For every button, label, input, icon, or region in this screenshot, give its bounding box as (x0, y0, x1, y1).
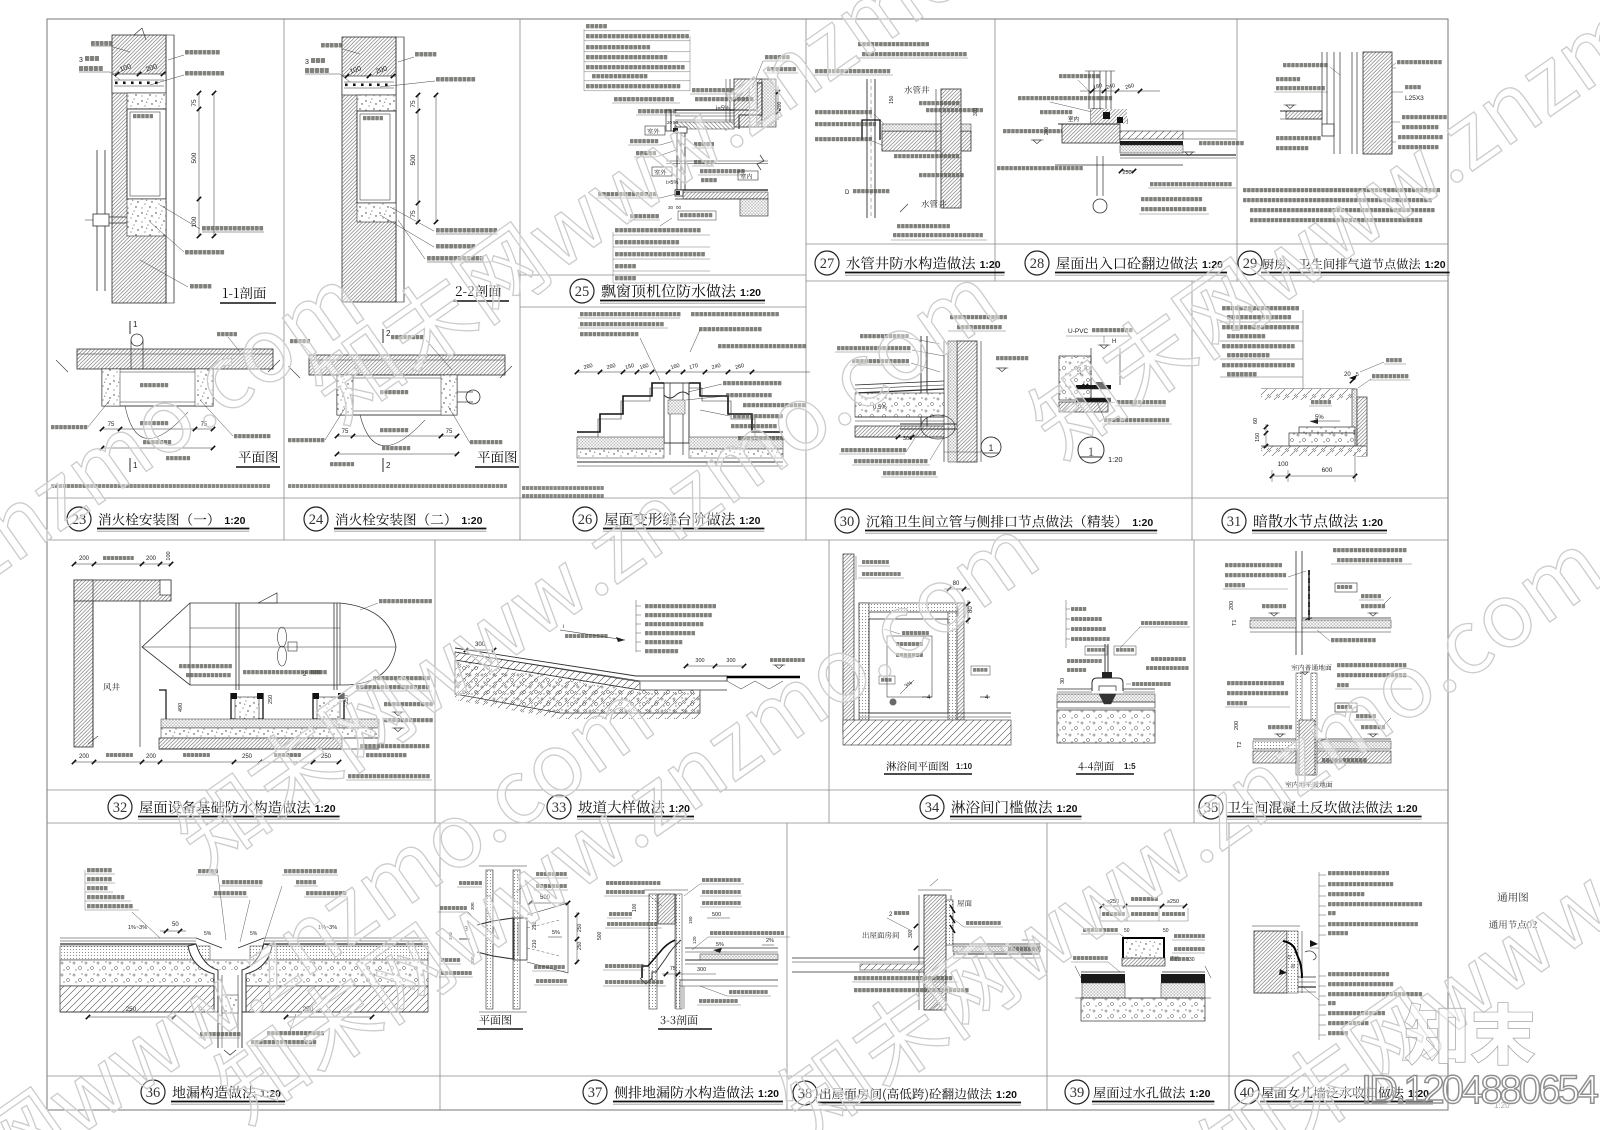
cell25 wall hatch top right (734, 79, 762, 127)
dims below plan 24 (337, 435, 457, 437)
dims below plan 23 (102, 428, 213, 430)
caption 2-2 section (456, 285, 501, 297)
svg-text:30: 30 (668, 205, 674, 210)
cell29 notes (1243, 188, 1440, 192)
cell37 3-3 section (649, 894, 657, 1009)
svg-text:D: D (845, 190, 850, 196)
svg-text:200: 200 (146, 754, 157, 760)
cell 23 plan wall strip (77, 349, 273, 369)
cell 25: bay window top waterproofing (586, 24, 607, 28)
cell35 bottom floors (1253, 738, 1296, 740)
svg-text:1:20: 1:20 (461, 515, 482, 527)
cell34 4-4 section (1057, 688, 1092, 690)
cell32 roof layers (161, 719, 379, 728)
upstand wall (1301, 551, 1303, 655)
svg-text:490: 490 (178, 703, 184, 712)
wall below grade hatch (1357, 397, 1367, 456)
title 31 暗散水节点做法 (1222, 509, 1246, 533)
valve circle (466, 390, 480, 404)
svg-text:250: 250 (268, 695, 274, 704)
svg-text:5%: 5% (204, 931, 212, 937)
cell25 bottom labels (615, 228, 701, 232)
cell31 apron slabs (1299, 427, 1355, 433)
masonry wall 1-1 (112, 35, 166, 303)
title 30 沉箱卫生间立管与侧排口节点做法（精装） (835, 509, 859, 533)
title 25 飘窗顶机位防水做法 (570, 279, 594, 303)
title 37 侧排地漏防水构造做法 (583, 1080, 607, 1104)
label right 24 (470, 440, 502, 444)
svg-text:1:20: 1:20 (1189, 1088, 1210, 1100)
cell 32: roof equipment base waterproofing (74, 563, 171, 565)
svg-text:1:20: 1:20 (315, 803, 336, 815)
title 35 卫生间混凝土反坎做法做法 (1199, 795, 1223, 819)
title 24 消火栓安装图（二） (304, 507, 328, 531)
cell29 right labels (1397, 60, 1442, 64)
svg-text:1:20: 1:20 (758, 1088, 779, 1100)
svg-text:260: 260 (606, 363, 616, 371)
svg-text:i>5%: i>5% (666, 180, 678, 186)
svg-text:1%~3%: 1%~3% (128, 925, 147, 931)
cell 33: ramp detail (645, 604, 716, 608)
cell31 soil band (1261, 388, 1355, 390)
svg-text:30: 30 (1060, 678, 1066, 684)
concrete below box 24 (357, 203, 396, 222)
svg-text:200: 200 (146, 556, 157, 562)
cell40 flashing curve (1283, 941, 1302, 978)
door swing (125, 406, 188, 439)
svg-text:250: 250 (242, 754, 253, 760)
cell39 curb (1123, 938, 1164, 960)
masonry wall 2-2 (342, 37, 396, 302)
title 39 屋面过水孔做法 (1065, 1080, 1089, 1104)
caption shower plan (886, 761, 948, 771)
duct wall hatch (1363, 52, 1392, 154)
svg-text:250: 250 (577, 923, 583, 932)
svg-text:4: 4 (985, 695, 989, 701)
poly board (1352, 389, 1357, 451)
outdoor grade thick line (727, 676, 800, 678)
cell34 shower plan outer wall (843, 554, 854, 734)
svg-text:260: 260 (1125, 83, 1135, 91)
svg-text:1:20: 1:20 (1362, 517, 1383, 529)
svg-text:80: 80 (953, 581, 960, 587)
svg-text:50: 50 (1124, 928, 1130, 934)
title 34 淋浴间门槛做法 (920, 795, 944, 819)
cell37 funnel plan (477, 918, 513, 959)
svg-text:2: 2 (386, 329, 391, 338)
svg-text:2: 2 (889, 912, 893, 918)
svg-text:ID.1204880654: ID.1204880654 (1361, 1068, 1599, 1112)
svg-text:250: 250 (577, 941, 583, 950)
title 33 坡道大样做法 (547, 795, 571, 819)
svg-text:75: 75 (108, 422, 115, 428)
cell25 roof slab layers (675, 109, 734, 111)
title 23 消火栓安装图（一） (67, 507, 91, 531)
floor slab left (1286, 111, 1322, 119)
title 28 屋面出入口砼翻边做法 (1025, 251, 1049, 275)
diagonal watermarks znzmo (0, 259, 368, 879)
threshold curb (1092, 678, 1123, 691)
box right edge / leader (1302, 310, 1304, 389)
svg-text:260: 260 (735, 363, 745, 371)
svg-text:T2: T2 (1237, 742, 1243, 748)
concrete block (1059, 356, 1091, 400)
cell38 wall (924, 895, 946, 1010)
svg-text:1:20: 1:20 (1397, 803, 1418, 815)
svg-text:300: 300 (470, 902, 475, 910)
svg-text:20: 20 (1344, 372, 1351, 378)
cell26 stepped profile right (689, 383, 783, 432)
svg-text:150: 150 (889, 95, 895, 104)
svg-text:1:20: 1:20 (1108, 455, 1123, 464)
title 27 水管井防水构造做法 (815, 251, 839, 275)
svg-text:1:5: 1:5 (1124, 762, 1136, 771)
svg-text:600: 600 (1322, 467, 1333, 474)
title 26 屋面变形缝台阶做法 (573, 507, 597, 531)
svg-text:200: 200 (79, 754, 90, 760)
svg-text:75: 75 (410, 100, 417, 108)
svg-text:1: 1 (988, 443, 993, 453)
cell25 sill layers (675, 189, 768, 191)
cell39 slabs (1081, 971, 1125, 973)
caption 1-1 section (223, 287, 266, 299)
svg-text:5: 5 (1356, 372, 1359, 378)
cell30 floor layers (855, 381, 944, 385)
svg-text:300: 300 (695, 658, 704, 664)
cell37 roof layers right (685, 947, 778, 949)
svg-text:i=5%: i=5% (716, 106, 730, 112)
caption plan 37 (479, 1015, 511, 1025)
concrete fill above box (127, 93, 166, 109)
glass panel (1107, 644, 1109, 678)
svg-text:30: 30 (840, 514, 855, 530)
svg-text:75: 75 (410, 210, 417, 218)
label masonry (217, 332, 237, 336)
title 40 屋面女儿墙泛水收口做法 (1235, 1080, 1259, 1104)
svg-text:500: 500 (597, 931, 603, 940)
svg-text:室内: 室内 (1068, 115, 1079, 123)
svg-text:200: 200 (1044, 126, 1050, 135)
svg-text:100: 100 (632, 903, 638, 912)
svg-text:250: 250 (126, 1006, 137, 1013)
svg-text:5%: 5% (552, 930, 560, 936)
svg-text:28: 28 (1030, 256, 1045, 272)
svg-text:180: 180 (1093, 83, 1103, 91)
svg-text:300: 300 (973, 107, 979, 116)
svg-text:1: 1 (133, 320, 138, 329)
cell26 stepped profile left (577, 383, 664, 432)
svg-text:200: 200 (1234, 721, 1240, 730)
cell26 labels (580, 312, 681, 316)
label left (51, 425, 87, 429)
svg-text:1:20: 1:20 (739, 515, 760, 527)
caption plan 23 (239, 451, 278, 463)
sheet margin text (1498, 892, 1528, 902)
scupper pipe (642, 940, 675, 978)
cell32 fan unit (142, 603, 340, 685)
svg-text:5%: 5% (250, 931, 258, 937)
labels cell24 section (321, 43, 342, 48)
svg-text:i: i (563, 624, 564, 630)
svg-text:1:20: 1:20 (1057, 803, 1078, 815)
svg-text:50: 50 (1163, 928, 1169, 934)
svg-text:150: 150 (625, 363, 635, 371)
cell 39: roof scupper hole (1102, 905, 1185, 907)
drain circle (1093, 199, 1107, 213)
svg-text:100: 100 (1278, 461, 1289, 468)
svg-text:500: 500 (191, 152, 198, 163)
svg-text:1: 1 (133, 461, 138, 470)
wall strip A (486, 870, 493, 1009)
cell40 parapet (1254, 931, 1287, 993)
cell33 ramp (455, 648, 727, 681)
label right (234, 434, 270, 438)
lintel beam 24 (342, 76, 396, 95)
svg-text:25: 25 (575, 284, 590, 300)
cell40 label bracket (1318, 872, 1320, 1040)
cell26 bottom-left note (522, 486, 604, 490)
cell 27: pipe well waterproofing (858, 42, 929, 46)
fire pipe (96, 150, 98, 291)
floor drain (890, 699, 897, 706)
znzmo logo bottom right (1405, 1003, 1535, 1066)
cell35 top floors (1250, 617, 1296, 619)
cell30 side outlet (900, 423, 957, 425)
svg-text:50: 50 (172, 922, 179, 928)
svg-text:200: 200 (79, 556, 90, 562)
svg-text:T1: T1 (1232, 620, 1238, 626)
box bottom elevation label (202, 226, 263, 231)
svg-text:160: 160 (670, 363, 680, 371)
hydrant box 24 (357, 111, 396, 203)
title 29 厨房、卫生间排气道节点做法 (1238, 251, 1262, 275)
svg-text:240: 240 (1106, 83, 1116, 91)
cell25 mid break lines (666, 160, 768, 162)
cell25 lower window (676, 166, 678, 190)
svg-text:1:10: 1:10 (956, 762, 973, 771)
svg-text:U-PVC: U-PVC (1068, 328, 1089, 335)
riser pipe plan (131, 334, 143, 346)
title 32 屋面设备基础防水构造做法 (108, 795, 132, 819)
svg-text:500: 500 (410, 154, 417, 165)
svg-text:4: 4 (927, 695, 931, 701)
cell25 window frame upper (676, 131, 678, 166)
svg-text:300: 300 (908, 929, 914, 938)
cell 28: roof doorway concrete upstand (1088, 71, 1090, 109)
caption 4-4 section (1078, 761, 1114, 771)
svg-text:1:20: 1:20 (996, 1089, 1017, 1101)
cell32 bottom dims (74, 761, 339, 763)
cell35 bottom subfigure (1291, 664, 1331, 670)
svg-text:00: 00 (676, 205, 682, 210)
caption 3-3 (661, 1015, 698, 1025)
title 38 出屋面房间(高低跨)砼翻边做法 (793, 1081, 817, 1105)
svg-text:1:20: 1:20 (1494, 1101, 1510, 1110)
concrete above box 24 (357, 95, 396, 111)
svg-text:39: 39 (1070, 1085, 1085, 1101)
cell 31: hidden apron drainage node (1222, 306, 1299, 310)
svg-text:260: 260 (583, 363, 593, 371)
svg-text:26: 26 (578, 512, 593, 528)
cell32 curbs (231, 693, 263, 719)
svg-text:200: 200 (1229, 601, 1235, 610)
curb around pipe (862, 120, 880, 140)
note line 24 (288, 484, 507, 488)
cell26 dim row (577, 371, 810, 373)
svg-text:20: 20 (667, 120, 673, 125)
cell36 floor layers (60, 937, 196, 939)
bottom soil (1261, 446, 1366, 456)
svg-text:75: 75 (342, 429, 349, 435)
cell28 interior slab (1062, 124, 1120, 143)
svg-text:160: 160 (639, 363, 649, 371)
grid lines (47, 497, 1448, 499)
svg-text:33: 33 (552, 800, 567, 816)
dim chain 2-2 (417, 95, 419, 222)
cell27 pipe (866, 79, 868, 218)
hydrant box plan 24 (337, 375, 457, 415)
svg-text:300: 300 (697, 967, 706, 973)
door swing 24 (360, 415, 425, 446)
cell27 shaft wall (941, 89, 961, 208)
svg-text:5%: 5% (716, 942, 724, 948)
shower door outline (887, 636, 932, 697)
labels cell23 section (91, 41, 112, 46)
svg-text:27: 27 (820, 256, 835, 272)
svg-text:80: 80 (968, 606, 974, 613)
svg-text:31: 31 (1227, 514, 1242, 530)
svg-text:1:20: 1:20 (740, 287, 761, 299)
riser pipe (926, 336, 928, 426)
big detail mark 1 (1078, 437, 1104, 463)
svg-text:1:20: 1:20 (1132, 517, 1153, 529)
svg-text:32: 32 (113, 800, 128, 816)
dim chain 1-1 (198, 93, 200, 236)
cell 36: floor drain construction (87, 868, 112, 872)
svg-text:75: 75 (191, 99, 198, 107)
svg-text:3: 3 (305, 59, 309, 66)
svg-text:210: 210 (532, 939, 538, 948)
svg-text:1:20: 1:20 (1425, 259, 1446, 271)
svg-text:2%: 2% (766, 938, 774, 944)
structure slab (855, 426, 944, 437)
svg-text:≥250: ≥250 (1167, 899, 1179, 905)
svg-text:H: H (1112, 339, 1116, 345)
shower room inner (869, 619, 948, 713)
svg-text:1:20: 1:20 (224, 515, 245, 527)
svg-text:75: 75 (446, 429, 453, 435)
concrete label top (391, 335, 423, 339)
svg-text:120: 120 (692, 936, 697, 944)
svg-text:0.5%: 0.5% (873, 405, 887, 411)
lintel beam (112, 74, 166, 93)
svg-text:150: 150 (1255, 433, 1261, 442)
caption plan 24 (478, 451, 517, 463)
svg-text:34: 34 (925, 800, 940, 816)
cell30 masonry wall (957, 341, 977, 462)
svg-text:24: 24 (309, 512, 324, 528)
svg-text:1:20: 1:20 (980, 259, 1001, 271)
concrete fill below box (127, 199, 166, 236)
title 36 地漏构造做法 (141, 1080, 165, 1104)
svg-text:100: 100 (166, 551, 172, 560)
cell 35: bathroom concrete upstand (1333, 548, 1407, 552)
waterproof turnup (734, 83, 762, 129)
hydrant box plan (102, 369, 213, 406)
cell28 roof slab right (1120, 131, 1183, 139)
cell38 flashing (946, 900, 953, 945)
cell28 threshold (1091, 109, 1127, 124)
svg-text:37: 37 (588, 1085, 603, 1101)
wall strip B (513, 870, 520, 1009)
cell36 funnel drain (188, 944, 218, 1012)
cell30 sleeve pipe (1076, 385, 1111, 389)
cell32 L-wall (74, 580, 93, 747)
svg-text:2: 2 (386, 461, 391, 470)
svg-text:500: 500 (712, 912, 721, 918)
svg-text:300: 300 (726, 658, 735, 664)
insulation block (740, 199, 768, 216)
cell34 plan floor band (859, 712, 1011, 714)
svg-text:L25X3: L25X3 (1405, 95, 1424, 102)
note line 23 (51, 484, 270, 488)
svg-text:30: 30 (1189, 957, 1195, 963)
svg-text:170: 170 (689, 363, 699, 371)
cell27 floor slab (882, 131, 971, 151)
svg-text:250: 250 (321, 754, 332, 760)
svg-text:150: 150 (688, 916, 693, 924)
cell 24 plan wall strip (309, 355, 505, 375)
cell26 expansion joint (664, 383, 689, 443)
svg-text:60: 60 (1253, 418, 1259, 424)
svg-text:50: 50 (673, 120, 679, 125)
parapet hatch top (658, 894, 675, 924)
wall strips bottom (1296, 673, 1302, 775)
svg-text:75: 75 (670, 966, 676, 972)
svg-text:3: 3 (79, 57, 83, 64)
detail mark 1 (981, 437, 1001, 457)
fire hydrant box niche (127, 109, 166, 199)
svg-text:240: 240 (711, 363, 721, 371)
